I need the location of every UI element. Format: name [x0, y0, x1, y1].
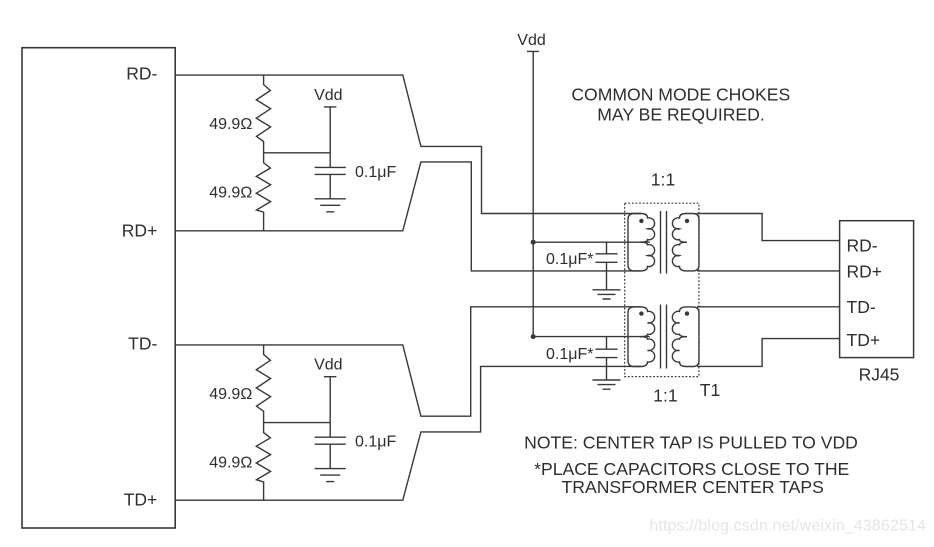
svg-text:1:1: 1:1 [651, 170, 675, 190]
svg-text:TRANSFORMER CENTER TAPS: TRANSFORMER CENTER TAPS [562, 477, 824, 497]
svg-text:0.1μF: 0.1μF [355, 164, 396, 181]
svg-text:0.1μF: 0.1μF [355, 434, 396, 451]
svg-text:MAY BE REQUIRED.: MAY BE REQUIRED. [597, 105, 765, 125]
svg-text:49.9Ω: 49.9Ω [209, 116, 252, 133]
svg-text:https://blog.csdn.net/weixin_4: https://blog.csdn.net/weixin_43862514 [649, 518, 926, 535]
svg-text:*PLACE CAPACITORS CLOSE TO THE: *PLACE CAPACITORS CLOSE TO THE [534, 459, 849, 479]
svg-text:0.1μF*: 0.1μF* [546, 346, 593, 363]
svg-text:RD-: RD- [847, 235, 878, 255]
svg-text:RD-: RD- [126, 64, 157, 84]
svg-text:1:1: 1:1 [653, 386, 677, 406]
svg-text:49.9Ω: 49.9Ω [209, 386, 252, 403]
svg-text:TD+: TD+ [847, 330, 881, 350]
svg-text:RD+: RD+ [122, 220, 158, 240]
svg-text:Vdd: Vdd [314, 87, 342, 104]
svg-text:T1: T1 [700, 380, 721, 400]
svg-text:TD-: TD- [847, 297, 876, 317]
svg-text:Vdd: Vdd [517, 32, 545, 49]
svg-text:COMMON MODE CHOKES: COMMON MODE CHOKES [571, 85, 790, 105]
svg-text:Vdd: Vdd [314, 357, 342, 374]
svg-text:NOTE: CENTER TAP IS PULLED TO: NOTE: CENTER TAP IS PULLED TO VDD [524, 433, 858, 453]
svg-text:49.9Ω: 49.9Ω [209, 185, 252, 202]
svg-text:RJ45: RJ45 [859, 365, 900, 385]
svg-text:0.1μF*: 0.1μF* [546, 251, 593, 268]
svg-text:49.9Ω: 49.9Ω [209, 455, 252, 472]
svg-text:RD+: RD+ [847, 262, 883, 282]
svg-text:TD-: TD- [128, 334, 157, 354]
svg-text:TD+: TD+ [124, 490, 158, 510]
